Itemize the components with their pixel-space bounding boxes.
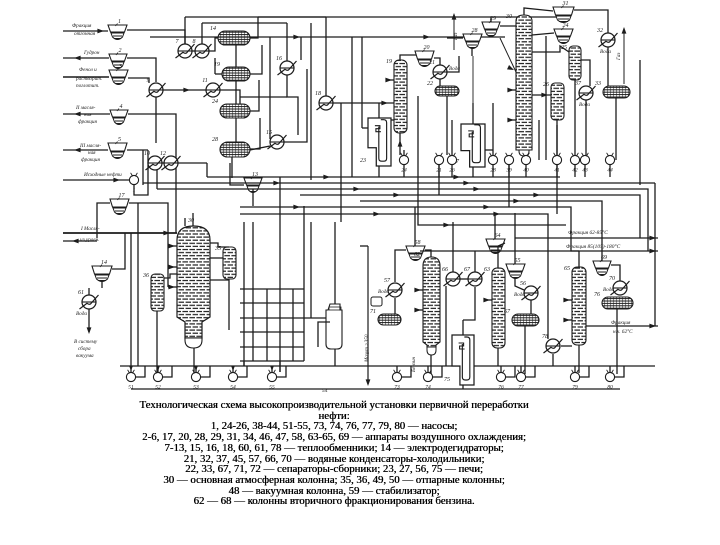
wire bus7	[240, 214, 548, 339]
svg-text:61: 61	[78, 290, 84, 296]
svg-text:Фракция 85(105)-180°С: Фракция 85(105)-180°С	[566, 243, 621, 250]
svg-text:51: 51	[128, 385, 134, 391]
wire feed3	[63, 76, 109, 78]
wire h8 out	[333, 102, 394, 104]
heat exchanger 57	[384, 278, 405, 297]
column 36	[142, 273, 164, 311]
wire pumpb elbow	[277, 366, 286, 377]
wire hx66 top	[452, 222, 454, 272]
wire pumpb up	[157, 366, 159, 372]
wire V4 out	[128, 114, 176, 233]
wire bus8	[418, 96, 566, 225]
pump 80	[605, 370, 614, 391]
svg-text:поглотит.: поглотит.	[76, 83, 100, 89]
vessel 3	[109, 64, 128, 85]
wire top7	[310, 23, 312, 180]
wire col26 bottom	[556, 120, 558, 160]
wire hx9 down	[155, 97, 157, 143]
wire pumpbr elbow	[526, 366, 535, 377]
svg-text:15: 15	[266, 130, 272, 136]
svg-text:63: 63	[484, 267, 490, 273]
wire h7 down	[287, 75, 298, 135]
wire col35 top pipe	[210, 243, 229, 247]
wire pumpb elbow	[136, 366, 145, 377]
svg-text:32: 32	[596, 28, 603, 34]
svg-text:Фракция: Фракция	[611, 320, 631, 326]
wire pumpbr up	[574, 366, 576, 372]
wire v14 top	[112, 233, 125, 269]
wire V1 out	[127, 30, 185, 44]
svg-text:III масля-: III масля-	[79, 143, 101, 149]
wire bottomline2	[131, 388, 620, 390]
svg-text:Газ: Газ	[616, 53, 622, 61]
svg-text:24: 24	[212, 98, 218, 105]
wire lattice v3	[266, 289, 268, 361]
column 19	[386, 59, 407, 133]
svg-text:73: 73	[394, 385, 400, 391]
wire pumpb up	[195, 366, 197, 372]
svg-text:19: 19	[386, 59, 392, 65]
svg-text:37: 37	[574, 81, 582, 87]
wire P1 out	[134, 163, 148, 195]
wire col19 l stub	[386, 79, 394, 81]
wire top8	[240, 96, 287, 98]
furnace 27	[453, 124, 485, 167]
wire furnace75 up	[462, 320, 464, 335]
wire V17 out	[129, 203, 168, 233]
wire col63 l stub	[484, 299, 492, 301]
pump 73	[392, 370, 401, 391]
wire lattice ext1	[279, 361, 281, 372]
svg-text:отгонная: отгонная	[74, 31, 96, 37]
wire gas up	[453, 14, 455, 50]
wire pumpb up	[271, 366, 273, 372]
wire pump down	[574, 165, 576, 177]
condenser drum 67	[504, 309, 539, 326]
pump 41	[552, 153, 561, 174]
wire busv1	[206, 163, 208, 177]
furnace 75	[444, 335, 474, 385]
svg-text:79: 79	[572, 385, 578, 391]
wire top3	[150, 36, 505, 38]
wire col19 feed	[380, 119, 394, 121]
wire hx32 down	[607, 47, 609, 86]
vessel 1	[108, 19, 127, 40]
pump 51	[126, 370, 135, 391]
wire pump452 up	[451, 120, 453, 155]
heat exchanger 66	[442, 267, 463, 286]
wire pump51 v	[130, 233, 132, 366]
wire h4 out	[220, 90, 250, 111]
wire col35 down	[228, 279, 230, 330]
heat exchanger 8	[193, 39, 212, 58]
wire pumpbr up	[396, 366, 398, 372]
wire col48 stub r2	[210, 279, 229, 281]
wire furn23 l	[362, 127, 368, 129]
wire pumpbr up	[500, 366, 502, 372]
wire v28 l	[447, 37, 463, 39]
column 48 bottom dome	[185, 338, 202, 348]
pump 40	[521, 153, 530, 174]
svg-text:54: 54	[322, 387, 328, 394]
wire lattice v7	[310, 222, 312, 318]
furnace 23	[360, 118, 391, 166]
vessel 24	[554, 22, 573, 44]
svg-text:вакуума: вакуума	[76, 353, 94, 359]
wire h1-h2	[192, 50, 195, 52]
wire hx56 down	[530, 300, 532, 314]
svg-text:11: 11	[202, 78, 208, 84]
wire pumpbr elbow	[506, 366, 515, 377]
svg-text:62: 62	[414, 252, 420, 258]
wire lattice	[240, 288, 304, 290]
svg-text:77: 77	[518, 385, 524, 391]
wire busv6	[556, 165, 558, 214]
wire right v1	[639, 60, 641, 185]
wire drum4 b	[231, 157, 233, 178]
column 62	[423, 257, 440, 347]
pump 74	[423, 370, 432, 391]
svg-text:Исходные нефти: Исходные нефти	[83, 171, 122, 178]
svg-text:28: 28	[212, 137, 218, 143]
wire h5-h6	[162, 162, 164, 164]
wire col30-col26	[532, 94, 551, 96]
wire out2	[63, 240, 97, 242]
heat exchanger 78	[542, 334, 563, 353]
svg-text:56: 56	[520, 281, 526, 287]
svg-text:ная: ная	[84, 112, 92, 118]
wire col30-col25 pipe	[532, 46, 569, 52]
wire pump404 up	[403, 150, 405, 155]
wire pump down	[438, 165, 440, 177]
condenser drum 14	[210, 25, 250, 45]
pump 52	[153, 370, 162, 391]
svg-text:сбора: сбора	[78, 345, 91, 352]
wire v14 down	[101, 280, 103, 288]
wire pump down	[584, 165, 586, 177]
svg-text:фракция: фракция	[81, 156, 100, 163]
wire col65 l stub	[564, 299, 572, 301]
svg-text:22: 22	[427, 81, 433, 87]
svg-text:Гудрон: Гудрон	[83, 49, 100, 56]
wire v69-h70	[611, 265, 620, 281]
wire v29 top	[490, 17, 492, 22]
wire V17	[97, 203, 110, 238]
wire v55 down	[515, 278, 524, 290]
wire hx66 down	[445, 286, 447, 366]
vessel 55	[506, 258, 525, 279]
wire h8 top	[325, 17, 327, 96]
svg-text:Фенол и: Фенол и	[79, 67, 97, 73]
wire furnace27 up	[472, 103, 474, 124]
heat exchanger 15	[266, 130, 287, 149]
wire hx37 down	[585, 100, 587, 155]
svg-text:ная: ная	[88, 150, 96, 156]
wire bottomline	[120, 365, 655, 367]
condenser drum 76	[594, 292, 633, 309]
wire pump down	[451, 165, 453, 177]
svg-text:18: 18	[315, 91, 321, 97]
wire hx78 r	[561, 345, 572, 347]
wire lattice v1	[243, 222, 245, 366]
wire drum22 down	[446, 96, 448, 155]
wire h21 down	[439, 79, 441, 86]
condenser drum 28	[212, 137, 250, 157]
wire col19 bottom	[399, 133, 401, 155]
wire col36 top pipe	[164, 274, 177, 278]
column 26	[543, 82, 564, 120]
pump 55	[267, 370, 276, 391]
column 30	[516, 15, 532, 150]
svg-text:Бензин: Бензин	[411, 356, 417, 373]
wire v64 top	[494, 213, 496, 239]
svg-text:В систему: В систему	[74, 339, 98, 345]
heat exchanger 37	[574, 81, 596, 100]
svg-text:12: 12	[160, 151, 166, 157]
svg-text:Вода: Вода	[378, 288, 389, 295]
wire h7 top	[286, 23, 288, 61]
wire v28 down	[471, 48, 473, 56]
wire top1	[185, 16, 326, 18]
wire col63 down	[497, 348, 499, 366]
wire pumpb up	[130, 366, 132, 372]
wire bus5	[360, 201, 602, 261]
column 65	[564, 266, 586, 345]
wire top5	[351, 37, 353, 177]
wire feed2	[63, 57, 109, 59]
wire lattice ext2	[243, 361, 245, 366]
svg-text:2: 2	[119, 48, 122, 54]
wire pumpbr elbow	[580, 366, 589, 377]
wire bus4	[300, 195, 640, 238]
wire drum33 down	[615, 98, 617, 160]
wire right edge v	[654, 183, 656, 326]
wire col30 l stub2	[508, 119, 516, 121]
wire pumpb up	[232, 366, 234, 372]
wire pump557 up	[556, 125, 558, 155]
svg-text:33: 33	[594, 81, 601, 87]
vessel 64	[486, 232, 505, 254]
wire b54 left	[318, 322, 330, 347]
heat exchanger 12	[160, 151, 181, 170]
wire drum4 down	[235, 118, 237, 142]
wire h3-h4	[163, 89, 206, 91]
vessel 14	[92, 259, 112, 282]
wire lattice h	[304, 317, 329, 319]
svg-text:30: 30	[505, 14, 512, 20]
wire col48 vert l	[167, 233, 169, 287]
wire h2 out	[209, 38, 218, 51]
wire V2 out	[127, 58, 156, 82]
wire pumpbr up	[427, 366, 429, 372]
svg-text:Вода: Вода	[76, 310, 87, 317]
wire drum67 down	[524, 326, 526, 374]
vessel 72 small	[371, 297, 382, 306]
svg-text:4: 4	[120, 103, 123, 110]
heat exchanger 10	[144, 151, 165, 170]
wire col62 top	[425, 250, 431, 257]
wire drum3 down	[235, 81, 237, 104]
svg-text:67: 67	[504, 309, 511, 315]
vessel 54 bottle	[326, 304, 342, 349]
wire pumpb elbow	[201, 366, 210, 377]
wire hx61 top	[88, 288, 90, 295]
wire col48 uptake	[184, 218, 186, 226]
column 35	[214, 246, 236, 279]
wire b54 riser	[334, 222, 336, 304]
wire drum2 l	[215, 73, 222, 75]
heat exchanger 70	[609, 276, 630, 295]
wire lattice v4	[279, 177, 281, 372]
wire feed5	[63, 149, 108, 151]
wire lattice v2	[252, 222, 254, 361]
wire hx57 down	[394, 298, 396, 314]
svg-text:65: 65	[564, 266, 570, 272]
svg-text:17: 17	[119, 193, 126, 199]
heat exchanger 56	[520, 281, 541, 300]
vessel 2	[109, 48, 127, 69]
svg-text:74: 74	[425, 384, 431, 391]
wire col63 top	[498, 243, 505, 268]
column 48	[177, 226, 210, 338]
wire top4	[258, 7, 568, 17]
heat exchanger 61	[78, 290, 99, 309]
wire top2	[202, 22, 287, 24]
heat exchanger 32	[596, 28, 618, 47]
heat exchanger 11	[202, 78, 222, 97]
wire mazut down	[367, 246, 369, 384]
pump 26	[447, 153, 456, 174]
svg-text:Фракция: Фракция	[72, 23, 92, 29]
wire drum2 r	[250, 45, 262, 74]
wire col65 top	[578, 251, 580, 267]
wire V3 out	[128, 78, 149, 83]
svg-text:53: 53	[193, 385, 199, 391]
svg-text:9: 9	[147, 78, 150, 84]
wire feed4	[63, 113, 110, 115]
wire furnace75 dn	[462, 385, 464, 389]
wire col62 l stub2	[416, 309, 423, 311]
wire mazut feed	[63, 232, 177, 234]
svg-text:I Масля-: I Масля-	[80, 226, 100, 232]
svg-text:8: 8	[193, 39, 196, 45]
wire col36 down	[156, 311, 158, 373]
pump 79	[570, 370, 579, 391]
svg-text:31: 31	[562, 1, 569, 7]
condenser drum 71	[370, 309, 401, 325]
wire drum3 r	[250, 80, 259, 111]
wire col30 top	[524, 8, 553, 15]
wire out3	[586, 325, 658, 327]
wire out2b	[420, 250, 658, 252]
wire v24 down	[545, 36, 547, 160]
wire bus6	[240, 207, 579, 251]
svg-text:16: 16	[276, 56, 282, 62]
svg-text:57: 57	[384, 278, 391, 284]
wire hx66-67	[460, 278, 468, 280]
wire gas up right	[623, 28, 625, 84]
wire v20-h21	[434, 58, 440, 65]
pump 24	[399, 153, 408, 174]
pump 28	[488, 153, 497, 174]
svg-text:Вода: Вода	[603, 286, 614, 293]
wire col48 stubs l	[168, 245, 177, 247]
vessel 4	[110, 103, 128, 125]
condenser drum 24	[212, 98, 250, 118]
pump 39	[504, 153, 513, 174]
wire col30 l stub	[508, 89, 516, 91]
svg-text:Вода: Вода	[514, 291, 525, 298]
pump 1	[129, 173, 138, 194]
svg-text:70: 70	[609, 276, 615, 282]
wire v5 line	[142, 150, 144, 185]
wire col25 r	[581, 60, 590, 86]
wire furn27 r	[485, 149, 493, 151]
pump 76	[496, 370, 505, 391]
vessel 29	[482, 16, 500, 37]
condenser drum 22	[427, 81, 459, 96]
wire col65 l stub2	[564, 319, 572, 321]
wire col62 down	[430, 355, 432, 374]
pump 53	[191, 370, 200, 391]
condenser drum 19	[214, 62, 250, 81]
wire hx67 down	[463, 287, 475, 320]
wire lattice v5	[292, 289, 294, 361]
wire pump down	[525, 165, 527, 177]
wire hx32 up	[574, 10, 608, 33]
wire col62 l stub	[416, 289, 423, 291]
svg-text:78: 78	[542, 334, 548, 340]
pump 54	[228, 370, 237, 391]
wire pumpbr elbow	[433, 366, 442, 377]
svg-text:80: 80	[607, 385, 613, 391]
svg-text:67: 67	[464, 267, 471, 273]
vessel 69	[593, 255, 611, 276]
wire drum2 down	[235, 45, 237, 67]
svg-text:фракция: фракция	[78, 118, 97, 125]
wire diag v28-col30	[500, 38, 516, 72]
wire pumpb elbow	[238, 366, 247, 377]
wire col30 r vert	[538, 120, 540, 160]
svg-text:76: 76	[498, 385, 504, 391]
wire busv2	[156, 170, 158, 189]
wire pumpbr elbow	[615, 366, 624, 377]
wire pump493 up	[492, 150, 494, 155]
vessel 58	[406, 240, 425, 261]
wire col30 feed arrow	[507, 65, 515, 72]
wire v13	[230, 163, 244, 185]
wire pumpbr up	[609, 366, 611, 372]
pump 77	[516, 370, 525, 391]
wire pump down	[492, 165, 494, 177]
vessel 28	[463, 28, 482, 49]
wire col30 r1	[532, 33, 554, 35]
svg-text:55: 55	[269, 385, 275, 391]
wire busv5	[508, 165, 510, 207]
svg-text:1: 1	[118, 19, 121, 25]
wire col30 bottom	[523, 156, 525, 160]
wire v58-col62	[395, 250, 406, 282]
svg-text:76: 76	[594, 292, 600, 298]
heat exchanger 9	[147, 78, 166, 97]
wire feed6	[63, 179, 129, 181]
wire hx67 top	[474, 251, 476, 272]
svg-text:Вода: Вода	[579, 101, 590, 108]
heat exchanger 67	[464, 267, 485, 286]
heat exchanger 21	[429, 60, 450, 79]
column 25	[561, 45, 581, 80]
svg-text:Фракция 62-85°С: Фракция 62-85°С	[568, 229, 608, 236]
